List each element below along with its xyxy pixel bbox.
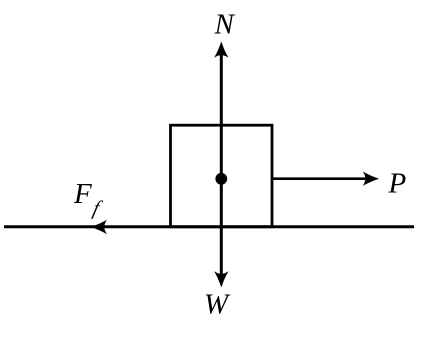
arrowhead F_f friction (left, on ground)	[91, 220, 107, 234]
svg-text:N: N	[214, 8, 236, 40]
wire: P force shaft	[272, 177, 369, 180]
block (box)	[171, 125, 273, 227]
svg-text:P: P	[388, 167, 407, 199]
node: center-of-mass dot	[215, 173, 227, 185]
ground line	[4, 225, 414, 228]
svg-text:W: W	[204, 289, 231, 321]
arrowhead W (down)	[214, 271, 228, 287]
svg-text:f: f	[91, 198, 104, 220]
arrowhead P (right)	[363, 172, 379, 186]
wire: vertical force line N-W	[220, 52, 223, 278]
svg-text:F: F	[73, 178, 92, 210]
arrowhead N (up)	[214, 42, 228, 58]
